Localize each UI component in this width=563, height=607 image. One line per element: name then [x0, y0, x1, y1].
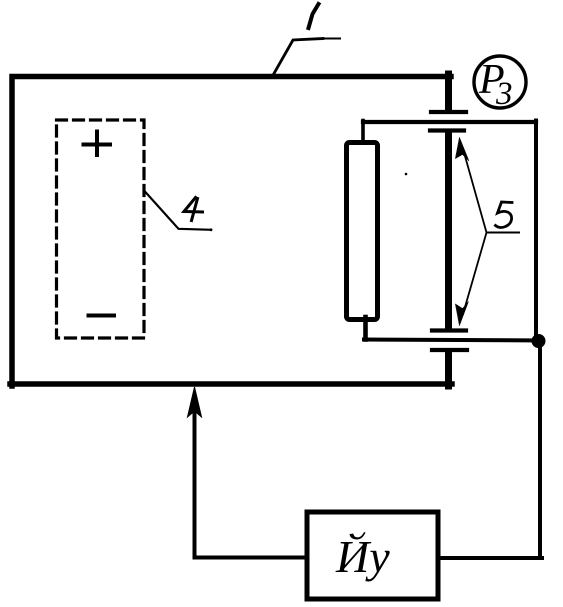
arrow from label 5 to top insulator	[456, 138, 487, 233]
arrow from label 5 to bottom insulator	[456, 233, 487, 326]
leader line for label 4	[144, 191, 212, 232]
wire: loop bottom (thin) to junction	[364, 340, 543, 341]
label 4	[184, 198, 203, 221]
wire: block right lead	[438, 556, 542, 560]
gauge P3 (circle)	[474, 56, 526, 108]
label 1	[309, 4, 319, 28]
wire: loop left lead to resistor	[361, 121, 365, 145]
wire: loop right (thin)	[534, 121, 538, 342]
svg-text:3: 3	[495, 76, 513, 112]
wire: resistor bottom lead	[363, 317, 368, 340]
wire: right drop from junction to block	[538, 341, 542, 558]
resistor (sensing element)	[347, 143, 378, 320]
wire: loop top (thin)	[363, 120, 536, 124]
block ИУ label text	[335, 531, 390, 582]
block ИУ	[307, 512, 438, 599]
leader line for label 1	[272, 39, 340, 78]
svg-text:Йу: Йу	[335, 531, 390, 582]
ink speck (scan artifact)	[405, 173, 408, 176]
battery 4 (dashed outline)	[57, 120, 145, 338]
minus polarity mark	[89, 314, 115, 318]
label 5 with underline	[487, 202, 520, 233]
wire: feedback line with arrow into chamber bottom	[188, 387, 202, 558]
electrode rod (thick right feed-through line)	[445, 74, 452, 386]
chamber 1 (enclosure box: left, top, bottom walls)	[10, 77, 452, 387]
wire: block left lead	[195, 556, 307, 560]
gauge P3 label text	[478, 57, 513, 112]
node: junction dot	[532, 334, 546, 348]
feed-through insulator top (5): two plates	[430, 112, 466, 131]
plus polarity mark	[84, 132, 111, 156]
feed-through insulator bottom (5): two plates	[432, 331, 467, 351]
